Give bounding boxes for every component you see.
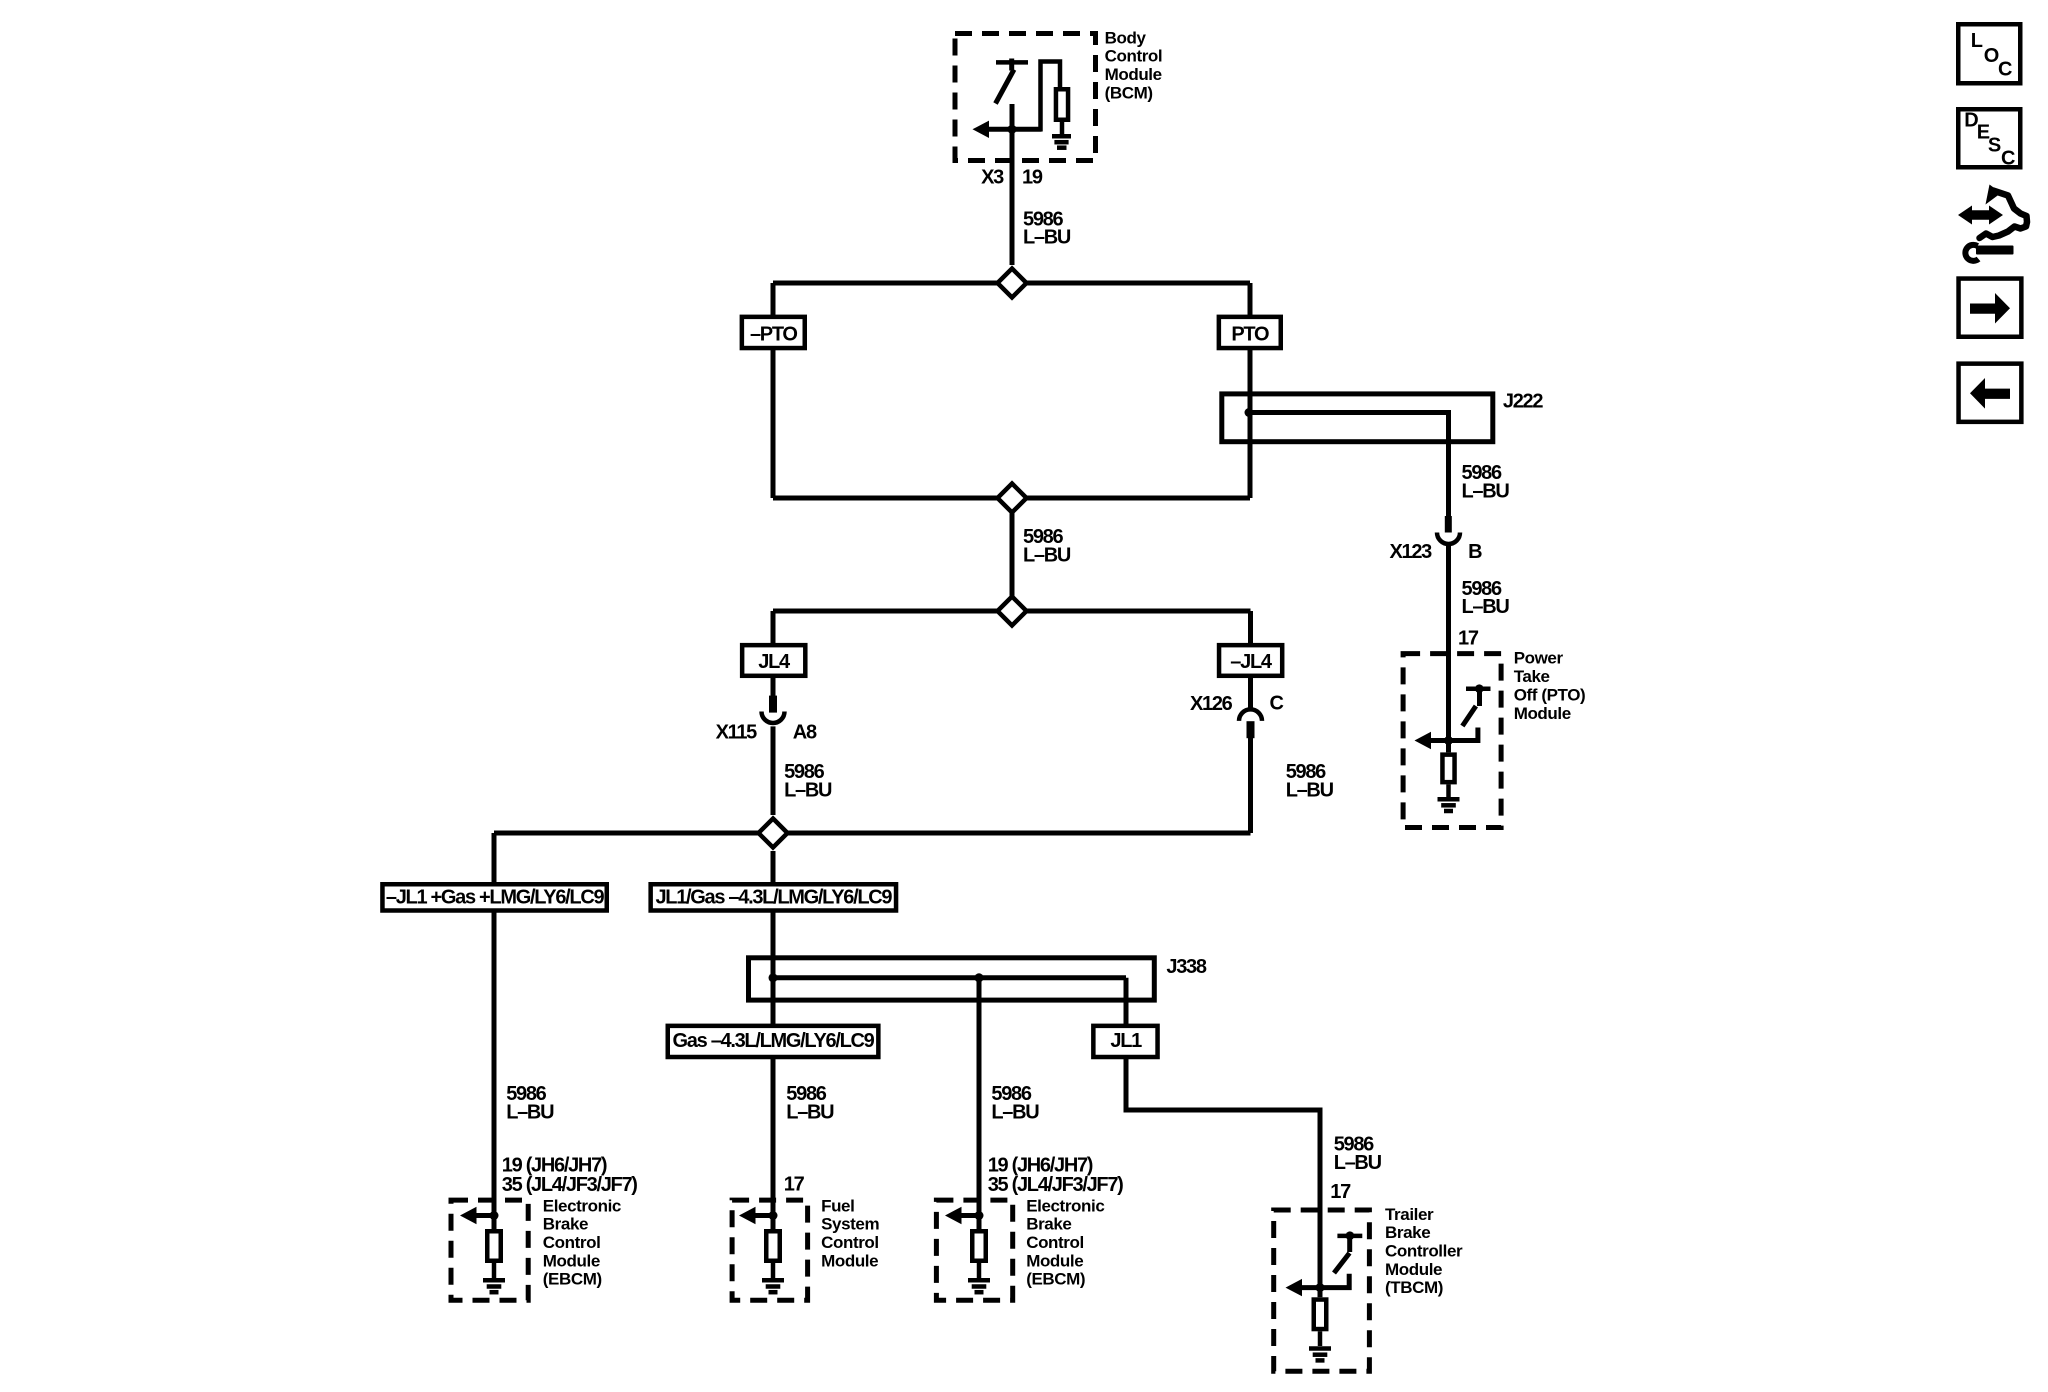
svg-text:(BCM): (BCM) [1105, 83, 1153, 102]
svg-text:JL4: JL4 [758, 651, 791, 673]
svg-text:X126: X126 [1190, 693, 1233, 715]
svg-text:L–BU: L–BU [506, 1101, 554, 1123]
svg-text:Control: Control [1105, 47, 1163, 66]
svg-text:Control: Control [821, 1233, 879, 1252]
svg-text:X3: X3 [981, 167, 1004, 189]
svg-text:L–BU: L–BU [1462, 596, 1510, 618]
svg-text:L–BU: L–BU [784, 780, 832, 802]
svg-text:Module: Module [821, 1251, 878, 1270]
svg-text:O: O [1984, 45, 1999, 67]
svg-text:Brake: Brake [1026, 1215, 1071, 1234]
svg-text:Body: Body [1105, 28, 1147, 47]
svg-text:L–BU: L–BU [991, 1101, 1039, 1123]
svg-text:C: C [1998, 59, 2012, 81]
svg-text:JL1: JL1 [1110, 1030, 1142, 1052]
svg-text:35 (JL4/JF3/JF7): 35 (JL4/JF3/JF7) [502, 1174, 637, 1196]
svg-text:A8: A8 [793, 722, 817, 744]
svg-text:S: S [1988, 135, 2001, 157]
svg-text:Control: Control [543, 1233, 601, 1252]
svg-text:X123: X123 [1389, 541, 1432, 563]
svg-text:J222: J222 [1503, 391, 1543, 413]
svg-text:Module: Module [1026, 1251, 1083, 1270]
svg-text:JL1/Gas –4.3L/LMG/LY6/LC9: JL1/Gas –4.3L/LMG/LY6/LC9 [655, 887, 892, 909]
svg-text:(TBCM): (TBCM) [1385, 1278, 1443, 1297]
svg-text:C: C [2001, 148, 2015, 170]
svg-text:Power: Power [1514, 649, 1564, 668]
svg-text:Gas –4.3L/LMG/LY6/LC9: Gas –4.3L/LMG/LY6/LC9 [673, 1030, 875, 1052]
svg-text:L–BU: L–BU [1286, 780, 1334, 802]
svg-text:L–BU: L–BU [1334, 1152, 1382, 1174]
svg-text:J338: J338 [1166, 956, 1206, 978]
svg-text:Module: Module [1105, 65, 1162, 84]
svg-text:L–BU: L–BU [1023, 226, 1071, 248]
svg-text:–PTO: –PTO [750, 324, 797, 346]
svg-text:Control: Control [1026, 1233, 1084, 1252]
svg-text:Trailer: Trailer [1385, 1205, 1434, 1224]
svg-text:C: C [1270, 693, 1284, 715]
svg-text:35 (JL4/JF3/JF7): 35 (JL4/JF3/JF7) [988, 1174, 1123, 1196]
svg-text:Fuel: Fuel [821, 1196, 854, 1215]
svg-text:L–BU: L–BU [786, 1101, 834, 1123]
svg-text:L–BU: L–BU [1462, 480, 1510, 502]
svg-text:Take: Take [1514, 667, 1550, 686]
svg-text:17: 17 [1330, 1181, 1351, 1203]
svg-text:Brake: Brake [543, 1215, 588, 1234]
svg-text:Module: Module [1514, 704, 1571, 723]
svg-text:17: 17 [784, 1174, 805, 1196]
svg-text:–JL4: –JL4 [1230, 651, 1273, 673]
svg-text:L: L [1971, 30, 1983, 52]
svg-text:PTO: PTO [1231, 324, 1269, 346]
svg-text:(EBCM): (EBCM) [1026, 1270, 1085, 1289]
svg-text:19: 19 [1022, 167, 1043, 189]
svg-text:Off (PTO): Off (PTO) [1514, 686, 1586, 705]
svg-text:Module: Module [543, 1251, 600, 1270]
svg-text:Brake: Brake [1385, 1223, 1430, 1242]
svg-text:L–BU: L–BU [1023, 545, 1071, 567]
svg-text:–JL1 +Gas +LMG/LY6/LC9: –JL1 +Gas +LMG/LY6/LC9 [386, 887, 605, 909]
svg-text:17: 17 [1458, 628, 1479, 650]
svg-text:(EBCM): (EBCM) [543, 1270, 602, 1289]
svg-text:Electronic: Electronic [543, 1196, 621, 1215]
svg-text:Controller: Controller [1385, 1242, 1463, 1261]
svg-text:X115: X115 [716, 722, 758, 744]
svg-text:B: B [1468, 541, 1482, 563]
svg-text:System: System [821, 1215, 879, 1234]
svg-text:Module: Module [1385, 1260, 1442, 1279]
svg-text:Electronic: Electronic [1026, 1196, 1104, 1215]
